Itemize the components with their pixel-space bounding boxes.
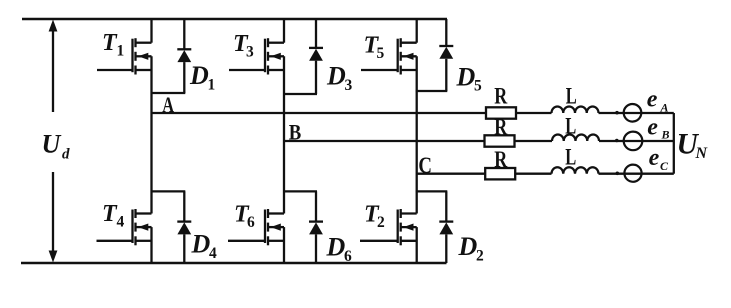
EMF source eC (circle) xyxy=(624,165,641,182)
wire drain of T5 to top rail xyxy=(416,19,418,43)
label D2 xyxy=(458,232,485,265)
Ud dimension arrow (lower half, arrowhead at bottom rail) xyxy=(49,172,58,263)
svg-text:e: e xyxy=(647,87,658,113)
wire inductor to EMF source (phase C) xyxy=(599,173,674,175)
label Ud xyxy=(42,130,71,163)
label T3 xyxy=(233,31,254,61)
wire source of T2 to bottom rail xyxy=(416,227,418,263)
wire source of T4 to bottom rail xyxy=(150,227,152,263)
svg-text:5: 5 xyxy=(377,45,385,62)
svg-text:1: 1 xyxy=(117,43,125,60)
svg-text:3: 3 xyxy=(246,44,254,61)
wire inductor to EMF source (phase B) xyxy=(599,140,674,142)
transistor T4 xyxy=(97,209,152,245)
transistor T6 xyxy=(228,209,284,245)
wire phase A from leg to resistor xyxy=(152,112,487,114)
svg-text:6: 6 xyxy=(344,248,352,265)
label UN (neutral voltage) xyxy=(677,129,709,163)
svg-text:D: D xyxy=(191,230,211,259)
label eA xyxy=(647,87,669,115)
svg-text:D: D xyxy=(458,232,478,261)
svg-text:4: 4 xyxy=(209,245,217,262)
label L (phase C) xyxy=(565,145,576,171)
inductor L (phase C) xyxy=(552,167,599,173)
label T6 xyxy=(234,202,255,232)
diode D5 xyxy=(439,19,453,91)
label D1 xyxy=(189,61,215,94)
label T2 xyxy=(364,202,385,232)
svg-text:e: e xyxy=(649,145,660,171)
transistor T3 xyxy=(229,38,284,74)
transistor T5 xyxy=(361,38,417,74)
transistor T2 xyxy=(360,209,417,245)
label D6 xyxy=(326,233,353,266)
svg-text:D: D xyxy=(326,233,346,262)
wire resistor to inductor (phase C) xyxy=(515,173,551,175)
label D3 xyxy=(326,62,353,95)
svg-text:3: 3 xyxy=(345,77,353,94)
svg-text:D: D xyxy=(456,63,476,92)
wire junction drain connector T4/D4 xyxy=(151,190,186,192)
junction dot before source (phase C) xyxy=(616,172,620,176)
wire inductor to EMF source (phase A) xyxy=(599,112,674,114)
svg-text:N: N xyxy=(695,145,709,162)
diode D1 xyxy=(177,19,191,93)
wire neutral bus vertical xyxy=(673,113,675,174)
wire phase B from leg to resistor xyxy=(284,140,485,142)
wire drain of T1 to top rail xyxy=(150,19,152,43)
svg-text:C: C xyxy=(660,159,669,173)
resistor R (phase A) xyxy=(486,107,516,118)
svg-text:L: L xyxy=(566,83,577,109)
diode D3 xyxy=(309,19,323,94)
junction dot before source (phase A) xyxy=(615,111,619,115)
label R (phase C) xyxy=(494,147,507,172)
svg-text:B: B xyxy=(661,128,670,142)
wire leg midline: source of T5 down to drain of T2 xyxy=(416,56,418,213)
wire junction D3 anode to phase leg xyxy=(283,93,317,95)
wire resistor to inductor (phase B) xyxy=(515,140,553,142)
label D5 xyxy=(456,63,483,95)
wire top DC bus rail xyxy=(22,18,447,21)
label eC xyxy=(649,145,669,173)
EMF source eA (circle) xyxy=(624,104,642,122)
wire junction D1 anode to phase leg xyxy=(151,92,186,94)
diode D2 xyxy=(439,191,453,263)
svg-text:R: R xyxy=(494,83,507,108)
svg-text:d: d xyxy=(62,147,70,163)
label eB xyxy=(647,115,669,142)
transistor T1 xyxy=(97,38,152,74)
svg-text:L: L xyxy=(565,114,576,140)
Ud dimension arrow (upper half, arrowhead at top rail) xyxy=(49,20,58,113)
svg-text:R: R xyxy=(494,114,507,139)
svg-text:A: A xyxy=(660,101,669,115)
node B (phase B label) xyxy=(289,120,302,145)
label L (phase B) xyxy=(565,114,576,140)
svg-text:1: 1 xyxy=(208,77,216,94)
svg-text:e: e xyxy=(647,115,658,141)
inductor L (phase B) xyxy=(552,135,599,141)
diode D4 xyxy=(177,191,191,263)
inductor L (phase A) xyxy=(552,107,599,113)
junction dot before source (phase B) xyxy=(615,139,619,143)
label R (phase B) xyxy=(494,114,507,139)
svg-text:D: D xyxy=(326,62,346,91)
svg-text:R: R xyxy=(494,147,507,172)
wire drain of T3 to top rail xyxy=(283,19,285,43)
resistor R (phase C) xyxy=(485,168,515,179)
wire junction D5 anode to phase leg xyxy=(416,90,448,92)
wire source of T6 to bottom rail xyxy=(283,227,285,263)
wire resistor to inductor (phase A) xyxy=(516,112,552,114)
wire junction drain connector T6/D6 xyxy=(283,190,317,192)
label L (phase A) xyxy=(566,83,577,109)
svg-text:5: 5 xyxy=(474,78,482,95)
label D4 xyxy=(191,230,218,263)
label T1 xyxy=(102,30,124,60)
label R (phase A) xyxy=(494,83,507,108)
label T5 xyxy=(364,33,385,63)
svg-text:2: 2 xyxy=(377,214,385,231)
wire junction drain connector T2/D2 xyxy=(416,190,448,192)
svg-text:2: 2 xyxy=(476,248,484,265)
svg-text:4: 4 xyxy=(117,214,125,231)
EMF source eB (circle) xyxy=(624,132,643,151)
label T4 xyxy=(102,201,125,231)
wire bottom DC bus rail xyxy=(21,262,447,265)
svg-text:6: 6 xyxy=(247,214,255,231)
diode D6 xyxy=(309,191,323,263)
resistor R (phase B) xyxy=(485,135,515,146)
node A (phase A label) xyxy=(162,92,174,117)
svg-text:L: L xyxy=(565,145,576,171)
svg-text:D: D xyxy=(189,61,209,90)
wire leg midline: source of T3 down to drain of T6 xyxy=(283,56,285,213)
wire phase C from leg to resistor xyxy=(417,173,486,175)
svg-text:U: U xyxy=(42,130,62,159)
wire leg midline: source of T1 down to drain of T4 xyxy=(150,56,152,213)
node C (phase C label) xyxy=(418,153,432,178)
